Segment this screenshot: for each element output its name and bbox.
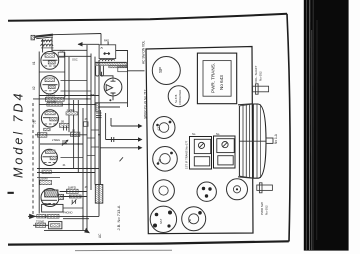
svg-text:2 MEG: 2 MEG (52, 138, 60, 142)
antenna coil scallops row 1 (41, 40, 52, 42)
wire vertical 91 (90, 54, 92, 191)
svg-text:1 MEG: 1 MEG (67, 108, 75, 112)
border frame: bottom edge (8, 241, 289, 244)
socket 6A7 with pins (150, 206, 176, 232)
tuning cap middle line (239, 140, 266, 142)
svg-text:42: 42 (157, 127, 161, 131)
wire vertical 69 (68, 57, 70, 132)
svg-text:1ST IF TRANS No 677: 1ST IF TRANS No 677 (185, 140, 189, 169)
svg-text:OSC: OSC (72, 57, 78, 61)
speaker circle SP (152, 57, 180, 85)
resistor right of T5 a (66, 189, 78, 193)
wire T5 rows (60, 191, 87, 193)
wire vertical 64.8 (64, 53, 66, 98)
svg-text:SP: SP (158, 67, 163, 73)
svg-text:.05: .05 (84, 117, 88, 121)
capacitor right of T5 (72, 200, 75, 204)
wire coil drops to tube T1 (42, 39, 44, 53)
output transformer box below T5 (42, 204, 63, 212)
wire transformer to chassis (127, 70, 144, 72)
wire bottom right short (63, 218, 89, 220)
wire horizontal 134.8 (35, 134, 87, 136)
wire vertical 95 (94, 57, 96, 185)
tube T2 (6A7) (41, 76, 59, 94)
wire phono row (37, 215, 99, 217)
wire vertical 78.3 (77, 100, 79, 173)
wire vertical 100.3 (99, 110, 101, 185)
wire horizontal 95.5 (39, 95, 99, 97)
tone control box (49, 222, 62, 229)
svg-text:.1MFD: .1MFD (67, 186, 77, 190)
volume shaft (253, 86, 269, 92)
IF can 1 (190, 137, 212, 170)
wire padder top drop (100, 34, 102, 45)
padder top tick (107, 42, 109, 45)
svg-text:.0001: .0001 (59, 50, 66, 54)
second shaft (257, 185, 273, 190)
oscillator coil vertical loop 1 (96, 66, 99, 76)
resistor 1 MEG (66, 112, 78, 115)
wire vertical 73.6 (73, 100, 75, 169)
svg-text:.01: .01 (62, 163, 66, 167)
tube T1 (6D6) (41, 52, 59, 70)
svg-text:75: 75 (33, 120, 37, 124)
cap diagonal arrow (72, 199, 77, 204)
faint print-through line at bottom (75, 249, 172, 251)
svg-text:.02: .02 (71, 129, 76, 133)
wire left bus (38, 52, 40, 214)
variable arrow slash (62, 140, 68, 146)
tuning capacitor assembly (238, 106, 240, 176)
bus rungs (91, 129, 99, 131)
svg-text:#1: #1 (32, 61, 36, 65)
wire padder right (116, 51, 128, 71)
wire vertical 83 (82, 108, 84, 230)
svg-text:AC SW ON VOL: AC SW ON VOL (142, 40, 146, 64)
capacitor cluster mid (111, 137, 113, 142)
socket 75 (153, 180, 175, 202)
svg-text:VOL. SHAFT: VOL. SHAFT (254, 65, 258, 83)
wire vertical 111 (110, 118, 112, 126)
IF can 2 (214, 136, 236, 168)
wire T1-T2 link (39, 71, 65, 73)
bottom arrow (84, 228, 90, 233)
wire loop to padder line (53, 34, 101, 35)
svg-text:J.B. No 713-A: J.B. No 713-A (116, 205, 121, 230)
svg-text:No 652: No 652 (265, 205, 269, 215)
tube T3 (75) (41, 110, 58, 127)
border frame: top edge (8, 14, 287, 21)
tube T4 (76) (41, 149, 57, 165)
svg-text:#2: #2 (32, 86, 36, 90)
wire tone row (33, 224, 49, 226)
socket 6D6 (197, 182, 216, 201)
chassis box (146, 47, 253, 234)
wire horizontal 172.5 (37, 172, 95, 174)
capacitor below T3 (62, 141, 67, 143)
svg-text:PWR SW: PWR SW (260, 202, 264, 215)
scallops under padder (100, 59, 115, 60)
socket 78 (182, 207, 206, 231)
loop antenna bar (35, 35, 53, 37)
svg-text:6A7: 6A7 (159, 218, 163, 224)
svg-text:PAD: PAD (104, 39, 109, 43)
svg-text:PHONO: PHONO (63, 210, 73, 214)
wire horizontal 144 (40, 143, 83, 145)
wire vertical 99 (98, 60, 100, 216)
junction strip vertical (95, 185, 103, 204)
wire horizontal 168.5 (37, 168, 99, 170)
small box right of T1 top (58, 52, 64, 57)
resistor row2 (47, 103, 63, 106)
svg-text:.25: .25 (84, 185, 88, 189)
tuning shaft (266, 138, 273, 143)
black scan binding bar (304, 0, 349, 251)
antenna coil scallops row 2 (41, 44, 53, 46)
svg-text:.05: .05 (60, 120, 65, 124)
dial drum circle (227, 179, 248, 200)
transformer terminal box (118, 67, 128, 72)
wire horizontal 98.9 (33, 98, 91, 100)
socket 42 (153, 117, 175, 139)
resistor phono row a (37, 214, 46, 218)
svg-text:10,000: 10,000 (47, 99, 57, 103)
phono arrow (29, 214, 36, 219)
svg-text:Model 7D4: Model 7D4 (12, 91, 26, 178)
svg-text:AC: AC (98, 233, 102, 238)
svg-text:No 652: No 652 (259, 71, 263, 81)
border frame: right edge (287, 14, 290, 242)
wire vertical 105.6 (105, 113, 107, 140)
antenna plug (31, 35, 35, 40)
wire bottom long (44, 229, 88, 231)
resistor mid row (71, 132, 80, 136)
wire dashed shield (32, 103, 34, 214)
tube T5 (42 output) (41, 189, 59, 207)
resistor phono row b (47, 214, 59, 218)
resistor (50,000) (45, 97, 64, 101)
wire horizontal 104.4 (39, 103, 95, 105)
power transformer box (197, 53, 236, 104)
svg-text:CONDENSER: CONDENSER (179, 89, 182, 105)
svg-text:350: 350 (46, 202, 51, 206)
stray dash mark at left edge (8, 192, 14, 194)
wire T2 right rows (61, 80, 88, 82)
wire T6 bottom rows (95, 102, 128, 104)
wire output box to bus (63, 207, 83, 209)
resistor right of T5 b (69, 195, 81, 198)
junction dots (64, 95, 66, 97)
svg-text:PWR. TRANS.: PWR. TRANS. (211, 63, 216, 93)
svg-text:No: No (216, 132, 220, 136)
padder box (99, 45, 116, 59)
svg-text:No 1-A: No 1-A (274, 133, 278, 144)
svg-text:No: No (192, 132, 196, 136)
svg-text:No 676: No 676 (174, 94, 178, 103)
capacitor under T6 (96, 113, 102, 115)
junction box small (84, 122, 89, 127)
resistor right of T3 (59, 123, 69, 127)
wire arrow to padder (78, 43, 99, 45)
resistor TONE (35, 223, 45, 227)
svg-text:50,000: 50,000 (46, 94, 56, 98)
wire vertical 127.5 lower (127, 71, 129, 107)
svg-text:No 643: No 643 (219, 75, 224, 90)
wire short row (37, 177, 60, 179)
wire T4 link (61, 157, 84, 159)
condenser circle No 676 (168, 86, 189, 107)
tuning cap inner verticals (253, 104, 255, 178)
wire vertical 87 (86, 45, 88, 230)
tuning cap end plates (238, 104, 252, 105)
oscillator coil vertical loop 2 (100, 66, 103, 76)
IF transformer top line (95, 61, 127, 63)
svg-text:78: 78 (188, 219, 192, 223)
resistor (250M) (40, 180, 52, 184)
wires to chassis with arrows (111, 125, 139, 127)
tube T6 second detector (104, 78, 122, 96)
wire T1 plate right (52, 49, 87, 51)
socket 76 (153, 147, 178, 172)
resistor vertical near T6 (96, 103, 99, 112)
wire T1 aux right (59, 55, 91, 57)
svg-text:TONE: TONE (36, 220, 44, 224)
capacitor near T3 (64, 126, 67, 131)
resistor VOL (37, 133, 47, 138)
IF transformer winding (top bar) (96, 63, 127, 66)
IF transformer winding (lower bar) (109, 66, 127, 68)
